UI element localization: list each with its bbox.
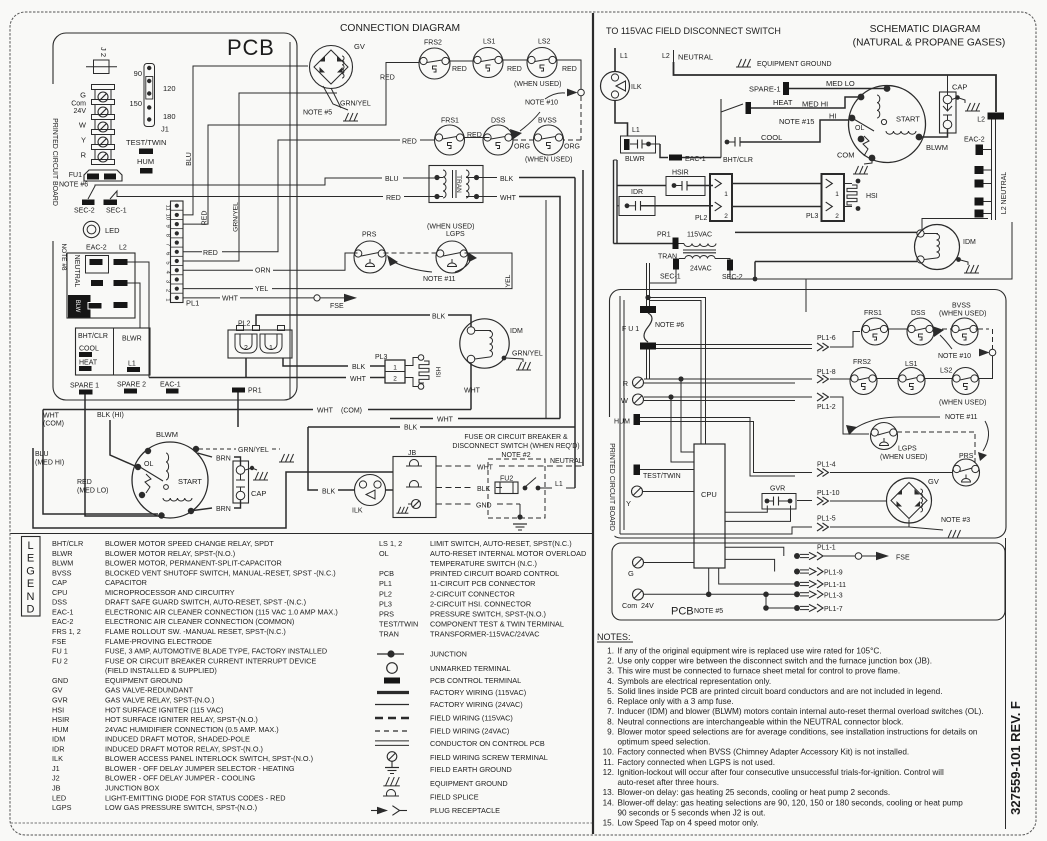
svg-text:PL1-2: PL1-2: [817, 404, 836, 411]
svg-text:NOTE #2: NOTE #2: [501, 452, 530, 459]
LED status diode: [83, 221, 99, 237]
Y terminal (schematic): [632, 486, 643, 497]
svg-text:WHT: WHT: [317, 408, 334, 415]
svg-text:PRESSURE SWITCH, SPST-(N.O.): PRESSURE SWITCH, SPST-(N.O.): [430, 609, 546, 618]
svg-text:F U 1: F U 1: [622, 326, 639, 333]
svg-text:LS2: LS2: [538, 39, 551, 46]
GRN/YEL dashed ground: [199, 448, 236, 450]
svg-text:ORG: ORG: [514, 144, 530, 151]
svg-text:Factory connected when BVSS (C: Factory connected when BVSS (Chimney Ada…: [618, 748, 910, 757]
wire WHT to PL3: [245, 358, 247, 378]
svg-text:PLUG RECEPTACLE: PLUG RECEPTACLE: [430, 806, 500, 815]
wire WHT pin1 to FSE: [183, 297, 220, 299]
svg-text:TEST/TWIN: TEST/TWIN: [643, 473, 681, 480]
svg-text:11.: 11.: [603, 758, 614, 767]
svg-text:TRANSFORMER-115VAC/24VAC: TRANSFORMER-115VAC/24VAC: [430, 630, 539, 639]
svg-text:L2: L2: [977, 117, 985, 124]
svg-text:GV: GV: [354, 42, 365, 51]
svg-text:BLK: BLK: [432, 314, 446, 321]
svg-text:HUM: HUM: [137, 157, 154, 166]
svg-text:CONDUCTOR ON CONTROL PCB: CONDUCTOR ON CONTROL PCB: [430, 739, 545, 748]
svg-text:NOTES:: NOTES:: [597, 632, 631, 642]
svg-text:IDM: IDM: [52, 735, 65, 744]
svg-text:2-CIRCUIT CONNECTOR: 2-CIRCUIT CONNECTOR: [430, 589, 515, 598]
L2 pad: [988, 113, 1005, 120]
wire PR1 down and right: [237, 393, 239, 428]
svg-text:PR1: PR1: [657, 232, 671, 239]
svg-text:IDR: IDR: [52, 744, 65, 753]
wire PL2 to PL3 BLK: [283, 358, 348, 366]
svg-text:COMPONENT TEST & TWIN TERMINAL: COMPONENT TEST & TWIN TERMINAL: [430, 619, 564, 628]
svg-text:DRAFT SAFE GUARD SWITCH, AUTO-: DRAFT SAFE GUARD SWITCH, AUTO-RESET, SPS…: [105, 598, 306, 607]
svg-text:BLW: BLW: [74, 300, 80, 313]
svg-text:BLK: BLK: [352, 364, 366, 371]
svg-text:1.: 1.: [607, 647, 614, 656]
svg-text:NEUTRAL: NEUTRAL: [678, 53, 713, 62]
svg-text:Com: Com: [71, 101, 86, 108]
svg-text:IDR: IDR: [631, 189, 643, 196]
gas valve GV: [310, 46, 353, 89]
wire ORN pin4 to PRS: [183, 269, 253, 271]
wire BRN to CAP bottom: [193, 508, 212, 511]
svg-text:L2: L2: [662, 53, 670, 60]
svg-text:NOTE #15: NOTE #15: [779, 117, 814, 126]
svg-text:150: 150: [129, 99, 142, 108]
svg-text:GAS VALVE RELAY, SPST-(N.O.): GAS VALVE RELAY, SPST-(N.O.): [105, 695, 214, 704]
svg-text:G: G: [628, 569, 634, 578]
svg-text:CONNECTION DIAGRAM: CONNECTION DIAGRAM: [340, 23, 460, 34]
svg-text:RED: RED: [562, 66, 577, 73]
svg-text:FRS1: FRS1: [864, 310, 882, 317]
svg-text:J1: J1: [161, 125, 169, 134]
wire into FU1 (double): [646, 263, 648, 306]
svg-text:HI: HI: [829, 112, 837, 121]
svg-text:Factory connected when LGPS is: Factory connected when LGPS is not used.: [618, 758, 775, 767]
wire bus into HSIR IDR: [617, 185, 666, 187]
relay BHT/CLR (schematic): [720, 99, 722, 158]
svg-text:HOT SURFACE IGNITER RELAY, SPS: HOT SURFACE IGNITER RELAY, SPST-(N.O.): [105, 715, 258, 724]
svg-text:PRINTED CIRCUIT BOARD CONTROL: PRINTED CIRCUIT BOARD CONTROL: [430, 569, 559, 578]
svg-text:BHT/CLR: BHT/CLR: [723, 157, 753, 164]
connector PL2 (schematic): [710, 174, 732, 221]
svg-text:LS2: LS2: [940, 368, 953, 375]
svg-text:PL1-10: PL1-10: [817, 490, 840, 497]
svg-text:NOTE #11: NOTE #11: [423, 276, 456, 283]
svg-text:115VAC: 115VAC: [687, 232, 712, 239]
svg-text:SEC-2: SEC-2: [722, 274, 743, 281]
svg-text:RED: RED: [402, 139, 417, 146]
svg-text:HUM: HUM: [52, 725, 69, 734]
svg-text:TEST/TWIN: TEST/TWIN: [379, 619, 418, 628]
svg-text:J2: J2: [52, 774, 60, 783]
svg-text:BLWM: BLWM: [926, 143, 948, 152]
blocked vent switch BVSS: [534, 125, 564, 155]
neutral block wire stub: [128, 283, 141, 328]
svg-text:WHT: WHT: [464, 388, 481, 395]
wire BLK lower run: [308, 427, 318, 490]
svg-text:SEC-1: SEC-1: [660, 274, 681, 281]
DSS schematic contacts: [907, 318, 934, 345]
svg-text:EAC-1: EAC-1: [160, 382, 181, 389]
svg-text:WHT: WHT: [222, 296, 239, 303]
wire RED between FRS1 DSS: [464, 137, 490, 139]
svg-text:WHT: WHT: [437, 417, 454, 424]
svg-text:EQUIPMENT GROUND: EQUIPMENT GROUND: [430, 779, 508, 788]
wire WHT COM vertical: [43, 410, 158, 515]
svg-text:GVR: GVR: [770, 486, 785, 493]
svg-text:ORN: ORN: [255, 268, 271, 275]
svg-text:(MED HI): (MED HI): [35, 460, 64, 467]
svg-text:2.: 2.: [607, 657, 614, 666]
svg-text:SPARE-1: SPARE-1: [749, 85, 781, 94]
svg-text:Ignition-lockout will occur af: Ignition-lockout will occur after four c…: [618, 768, 944, 777]
svg-text:(WHEN USED): (WHEN USED): [939, 311, 986, 318]
dashed BLK JB to FU2: [436, 487, 473, 489]
capacitor CAP: [233, 461, 249, 503]
svg-text:CAP: CAP: [251, 489, 266, 498]
NEUTRAL connector block: [67, 253, 135, 318]
svg-text:11-CIRCUIT PCB CONNECTOR: 11-CIRCUIT PCB CONNECTOR: [430, 579, 535, 588]
svg-text:RED: RED: [452, 66, 467, 73]
svg-text:GRN/YEL: GRN/YEL: [340, 101, 371, 108]
svg-text:PL1-7: PL1-7: [824, 606, 843, 613]
svg-text:BRN: BRN: [216, 456, 231, 463]
svg-text:PL2: PL2: [238, 321, 251, 328]
svg-text:HUM: HUM: [614, 419, 630, 426]
BVSS schematic contacts: [951, 318, 978, 345]
plug PL1-2: [817, 393, 823, 401]
section divider between connection diagram and schematic: [592, 13, 594, 834]
svg-text:FRS2: FRS2: [424, 40, 442, 47]
svg-text:J1: J1: [52, 764, 60, 773]
svg-text:WHT: WHT: [477, 465, 494, 472]
junction circle NOTE #10: [989, 349, 996, 356]
svg-text:GVR: GVR: [52, 695, 68, 704]
left 115VAC bus (schematic): [613, 160, 615, 244]
svg-text:RED: RED: [386, 195, 401, 202]
svg-text:Com: Com: [622, 601, 637, 610]
svg-text:R: R: [81, 151, 87, 160]
svg-text:GAS VALVE-REDUNDANT: GAS VALVE-REDUNDANT: [105, 686, 194, 695]
svg-text:FIELD WIRING (115VAC): FIELD WIRING (115VAC): [430, 714, 513, 723]
svg-text:R: R: [623, 379, 629, 388]
svg-text:FU1: FU1: [69, 172, 82, 179]
svg-text:PRS: PRS: [362, 232, 377, 239]
NOTE #11 arrows: [387, 255, 398, 266]
wire BLU from SEC-2 to transformer: [88, 178, 382, 199]
svg-text:7.: 7.: [607, 707, 614, 716]
neutral block wire to PL2: [128, 262, 150, 378]
svg-text:FU 1: FU 1: [52, 647, 68, 656]
svg-text:HSIR: HSIR: [672, 170, 689, 177]
LS2 to junction wire: [979, 356, 993, 379]
svg-text:Blower-off delay: gas heating: Blower-off delay: gas heating selections…: [618, 798, 964, 807]
svg-text:G: G: [80, 91, 86, 100]
svg-text:NOTE #5: NOTE #5: [694, 608, 723, 615]
svg-text:GRN/YEL: GRN/YEL: [238, 447, 269, 454]
svg-text:L1: L1: [555, 481, 563, 488]
connector PL3 (schematic): [822, 174, 845, 221]
wire RED pin9 trunk to FRS2: [183, 63, 419, 225]
svg-text:PRS: PRS: [959, 453, 974, 460]
svg-text:90: 90: [134, 69, 142, 78]
EAC-2 pad: [90, 259, 103, 265]
PCB board outline: [53, 33, 297, 400]
svg-text:PCB CONTROL TERMINAL: PCB CONTROL TERMINAL: [430, 676, 521, 685]
LEGEND box: [22, 537, 41, 617]
svg-text:5: 5: [165, 261, 171, 264]
svg-text:COOL: COOL: [79, 346, 99, 353]
svg-text:NOTE #3: NOTE #3: [941, 517, 970, 524]
svg-text:Inducer (IDM) and blower (BLWM: Inducer (IDM) and blower (BLWM) motors c…: [618, 707, 984, 716]
wire IDM to neutral bus: [922, 219, 988, 230]
svg-text:24VAC HUMIDIFIER CONNECTION (0: 24VAC HUMIDIFIER CONNECTION (0.5 AMP. MA…: [105, 725, 279, 734]
wire WHT transformer secondary: [477, 196, 498, 198]
svg-text:FSE: FSE: [52, 637, 66, 646]
SEC-1 terminal: [104, 200, 118, 206]
wire PL1-2 to LGPS: [830, 397, 869, 434]
wire to EAC-1: [660, 144, 668, 158]
wire RED between FRS2 LS1: [450, 60, 473, 62]
interlock switch ILK (schematic): [601, 72, 630, 101]
svg-text:EAC-1: EAC-1: [52, 607, 74, 616]
svg-text:BLOWER - OFF DELAY JUMPER - CO: BLOWER - OFF DELAY JUMPER - COOLING: [105, 774, 255, 783]
svg-text:12.: 12.: [603, 768, 614, 777]
L2 pads: [114, 259, 128, 265]
IDM ground GRN/YEL: [502, 356, 507, 361]
wires R to PL1-8: [644, 378, 812, 380]
relay BLWR (schematic): [621, 136, 656, 153]
svg-text:HSI: HSI: [866, 193, 878, 200]
svg-text:(COM): (COM): [341, 408, 362, 415]
wire IDM return to 24V line: [755, 261, 917, 263]
GV ground leads GRN/YEL NOTE #5: [331, 88, 341, 108]
svg-text:GRN/YEL: GRN/YEL: [233, 202, 240, 232]
svg-text:BLK: BLK: [322, 489, 336, 496]
wire CPU to GVR to PL1-10: [725, 506, 767, 513]
svg-text:PL3: PL3: [379, 599, 392, 608]
svg-text:PL1-11: PL1-11: [824, 582, 846, 589]
svg-text:LIMIT SWITCH, AUTO-RESET, SPST: LIMIT SWITCH, AUTO-RESET, SPST(N.C.): [430, 539, 572, 548]
svg-text:6: 6: [165, 252, 171, 255]
svg-text:DSS: DSS: [491, 118, 506, 125]
svg-text:LED: LED: [105, 226, 120, 235]
wire vertical beside PCB edge: [289, 42, 291, 399]
svg-text:FIELD WIRING SCREW TERMINAL: FIELD WIRING SCREW TERMINAL: [430, 753, 548, 762]
svg-text:Y: Y: [81, 136, 86, 145]
svg-text:BRN: BRN: [216, 506, 231, 513]
svg-text:3.: 3.: [607, 667, 614, 676]
svg-text:Symbols are electrical represe: Symbols are electrical representation on…: [618, 677, 772, 686]
plug PL1-1 wire: [725, 547, 784, 556]
svg-text:SCHEMATIC DIAGRAM: SCHEMATIC DIAGRAM: [870, 24, 981, 35]
svg-text:DISCONNECT SWITCH (WHEN REQ'D): DISCONNECT SWITCH (WHEN REQ'D): [452, 443, 579, 450]
svg-text:LGPS: LGPS: [898, 446, 917, 453]
LS2 schematic contacts: [952, 368, 979, 395]
svg-text:WHT: WHT: [43, 413, 60, 420]
svg-text:GRN/YEL: GRN/YEL: [512, 351, 543, 358]
PL1 11-pin header: [171, 201, 184, 303]
svg-text:PRS: PRS: [379, 609, 394, 618]
wire BLU MED HI: [33, 448, 393, 528]
svg-text:GND: GND: [52, 676, 68, 685]
svg-text:OL: OL: [855, 125, 864, 132]
svg-text:BLK (HI): BLK (HI): [97, 412, 124, 419]
plug PL1-11 wire: [719, 568, 794, 584]
svg-text:CPU: CPU: [52, 588, 67, 597]
svg-text:COM: COM: [837, 151, 855, 160]
svg-text:180: 180: [163, 112, 176, 121]
svg-text:TEST/TWIN: TEST/TWIN: [126, 138, 166, 147]
svg-text:PL2: PL2: [379, 589, 392, 598]
svg-text:1: 1: [165, 298, 171, 301]
svg-text:13.: 13.: [603, 788, 614, 797]
W terminal (schematic): [633, 394, 644, 405]
svg-text:CAP: CAP: [952, 83, 967, 92]
svg-text:2: 2: [165, 289, 171, 292]
wire BRN to CAP top: [198, 453, 213, 457]
svg-text:CPU: CPU: [701, 490, 717, 499]
svg-text:RED: RED: [507, 66, 522, 73]
svg-text:10.: 10.: [603, 748, 614, 757]
wire WHT COM horizontal run: [43, 409, 313, 411]
svg-text:BVSS: BVSS: [52, 568, 72, 577]
svg-text:J 2: J 2: [99, 47, 108, 57]
svg-text:11: 11: [165, 205, 171, 211]
NOTE #10 arrow at DSS: [510, 129, 522, 140]
svg-text:SEC-1: SEC-1: [106, 208, 127, 215]
dashed GND JB: [436, 503, 472, 505]
L2 trunk wire to L2 pad: [674, 62, 997, 112]
PCB board outline (schematic): [610, 290, 1007, 539]
svg-text:NOTE #10: NOTE #10: [938, 353, 971, 360]
svg-text:HSI: HSI: [52, 705, 64, 714]
svg-text:E: E: [27, 553, 34, 565]
low gas pressure switch LGPS: [436, 241, 468, 273]
svg-text:LS1: LS1: [905, 361, 918, 368]
svg-text:NEUTRAL: NEUTRAL: [550, 458, 583, 465]
svg-text:1: 1: [269, 345, 273, 352]
svg-text:PRINTED CIRCUIT BOARD: PRINTED CIRCUIT BOARD: [608, 443, 615, 531]
capacitor CAP (schematic): [940, 92, 957, 133]
wire YEL pin2 to LGPS: [183, 288, 253, 290]
transformer TRAN core (schematic): [683, 249, 716, 251]
svg-text:G: G: [26, 565, 35, 577]
svg-text:24V: 24V: [641, 601, 654, 610]
fuse FU2 dashed enclosure: [488, 459, 545, 518]
svg-text:1: 1: [393, 365, 397, 372]
blower motor BLWM (schematic): [849, 86, 926, 163]
svg-text:AUTO-RESET INTERNAL MOTOR OVER: AUTO-RESET INTERNAL MOTOR OVERLOAD: [430, 549, 586, 558]
svg-text:5.: 5.: [607, 687, 614, 696]
draft safeguard switch DSS: [483, 125, 513, 155]
wire ILK to L1 pad: [615, 101, 628, 136]
wires FU1 to PL1-6: [656, 344, 812, 346]
dashed ORG bypass down to BVSS: [580, 96, 582, 140]
svg-text:L2 NEUTRAL: L2 NEUTRAL: [1001, 172, 1008, 215]
svg-text:CAPACITOR: CAPACITOR: [105, 578, 147, 587]
svg-text:24V: 24V: [74, 108, 87, 115]
neutral pads column: [975, 166, 984, 174]
transformer TRAN: [429, 166, 483, 203]
svg-text:IDM: IDM: [510, 328, 523, 335]
svg-text:BHT/CLR: BHT/CLR: [78, 333, 108, 340]
svg-text:8.: 8.: [607, 717, 614, 726]
svg-text:6.: 6.: [607, 697, 614, 706]
svg-text:Low Speed Tap on 4 speed motor: Low Speed Tap on 4 speed motor only.: [618, 819, 759, 828]
svg-text:BLOWER MOTOR RELAY, SPST-(N.O.: BLOWER MOTOR RELAY, SPST-(N.O.): [105, 549, 235, 558]
svg-text:SPARE 2: SPARE 2: [117, 382, 146, 389]
svg-text:DSS: DSS: [911, 310, 926, 317]
wire IDM top terminal feed: [735, 231, 917, 233]
TEST/TWIN terminal (schematic): [634, 465, 641, 476]
motor windings: [140, 467, 163, 481]
svg-text:auto-reset after three hours.: auto-reset after three hours.: [618, 778, 720, 787]
svg-text:FSE: FSE: [330, 303, 344, 310]
thermostat terminal strip G/Com/W/Y/R: [95, 86, 111, 163]
junction terminal NOTE #10: [578, 89, 585, 96]
svg-text:(WHEN USED): (WHEN USED): [880, 454, 927, 461]
svg-text:TO 115VAC FIELD DISCONNECT SWI: TO 115VAC FIELD DISCONNECT SWITCH: [606, 26, 781, 36]
FRS2 schematic contacts: [850, 368, 877, 395]
wire stub into PCB at x=806: [805, 279, 807, 312]
svg-text:(WHEN USED): (WHEN USED): [939, 400, 986, 407]
svg-text:SEC-2: SEC-2: [74, 208, 95, 215]
legend area bottom border: [11, 822, 593, 824]
svg-text:UNMARKED TERMINAL: UNMARKED TERMINAL: [430, 664, 511, 673]
svg-text:TRAN: TRAN: [455, 175, 462, 193]
dashed WHT JB to FU2: [436, 465, 473, 467]
svg-text:If any of the original equipme: If any of the original equipment wire is…: [618, 647, 882, 656]
SEC-1 wire to FU1 feed: [650, 270, 676, 284]
svg-text:LGPS: LGPS: [52, 803, 72, 812]
svg-text:GV: GV: [928, 477, 939, 486]
svg-text:DSS: DSS: [52, 598, 67, 607]
svg-text:FACTORY WIRING (115VAC): FACTORY WIRING (115VAC): [430, 688, 526, 697]
svg-text:ELECTRONIC AIR CLEANER CONNECT: ELECTRONIC AIR CLEANER CONNECTION (COMMO…: [105, 617, 294, 626]
24V bus left verticals: [619, 296, 621, 534]
pressure switch PRS: [354, 241, 386, 273]
wire WHT from IDM down: [470, 363, 472, 410]
svg-text:ELECTRONIC AIR CLEANER CONNECT: ELECTRONIC AIR CLEANER CONNECTION (115 V…: [105, 607, 338, 616]
svg-text:Solid lines inside PCB are pri: Solid lines inside PCB are printed circu…: [618, 687, 943, 696]
svg-text:PL1-1: PL1-1: [817, 545, 836, 552]
svg-text:COOL: COOL: [761, 133, 782, 142]
svg-text:JUNCTION: JUNCTION: [430, 650, 467, 659]
neutral mid pad: [91, 280, 103, 286]
bus from FU1 junction to CPU (double): [648, 298, 706, 445]
wire RED from SEC-1 to transformer: [110, 191, 383, 199]
svg-text:10: 10: [165, 214, 171, 220]
svg-text:PR1: PR1: [248, 388, 262, 395]
svg-text:BLU: BLU: [186, 152, 193, 166]
fuse FU1 (schematic): [640, 306, 656, 313]
svg-text:NOTE #6: NOTE #6: [59, 182, 88, 189]
svg-text:INDUCED DRAFT MOTOR, SHADED-PO: INDUCED DRAFT MOTOR, SHADED-POLE: [105, 735, 250, 744]
svg-text:JB: JB: [52, 784, 61, 793]
svg-text:(MED LO): (MED LO): [77, 488, 109, 495]
svg-text:HOT SURFACE IGNITER (115 VAC): HOT SURFACE IGNITER (115 VAC): [105, 705, 223, 714]
plug PL1-7 wire: [765, 594, 767, 608]
svg-text:9: 9: [165, 225, 171, 228]
svg-text:PL2: PL2: [695, 215, 708, 222]
svg-text:FUSE OR CIRCUIT BREAKER CURREN: FUSE OR CIRCUIT BREAKER CURRENT INTERRUP…: [105, 656, 316, 665]
svg-text:PL1-8: PL1-8: [817, 369, 836, 376]
svg-text:15.: 15.: [603, 819, 614, 828]
svg-text:Y: Y: [626, 499, 631, 508]
wires R W into CPU: [681, 379, 694, 452]
SEC-2 terminal: [82, 200, 95, 206]
